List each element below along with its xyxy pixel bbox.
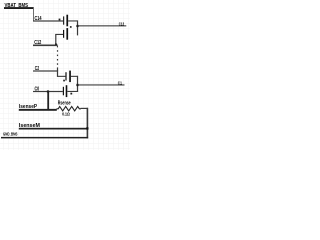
wire cap C14 right stub — [68, 20, 77, 21]
net label IsenseM — [19, 123, 41, 129]
net label C12 — [34, 40, 41, 46]
junction C13 node top — [76, 25, 78, 27]
capacitor C13 polarity mark — [70, 26, 72, 28]
net label C0 — [35, 87, 40, 93]
wire IsenseP row — [19, 109, 57, 111]
resistor Rsense value 0.1 ohm — [62, 112, 70, 118]
junction C12 elbow — [55, 44, 57, 46]
resistor Rsense — [57, 107, 81, 111]
wire GND row — [1, 137, 88, 139]
net label IsenseP — [19, 104, 38, 110]
wire right vertical (C1 node, bottom) — [77, 76, 78, 92]
svg-text:C13: C13 — [119, 21, 125, 27]
svg-text:0.1Ω: 0.1Ω — [62, 112, 70, 118]
wire C0 row — [33, 91, 63, 92]
junction C0 sense tap — [47, 90, 49, 92]
junction IsenseM right — [86, 127, 88, 129]
wire C2 row — [33, 70, 58, 71]
wire Rsense right stub — [81, 108, 89, 109]
net label C1 — [118, 80, 122, 86]
wire C2 elbow down to cap — [57, 70, 58, 77]
wire stub above C2 — [57, 67, 58, 71]
capacitor C0 — [63, 85, 67, 97]
wire cap C13 left stub — [55, 34, 63, 35]
wire VBAT_BMS vertical drop — [33, 8, 34, 21]
wire cap C0 right stub — [67, 91, 78, 92]
wire stub below C12 — [57, 46, 58, 48]
dotted continuation column — [57, 50, 58, 65]
capacitor C2 — [65, 71, 70, 83]
wire VBAT_BMS horizontal — [4, 7, 34, 9]
net label GND_BMS — [3, 131, 18, 137]
junction C1 node — [76, 84, 78, 86]
net label C14 — [35, 16, 43, 22]
wire C1 long horizontal — [78, 84, 125, 85]
wire cap C13 elbow down — [55, 34, 56, 45]
capacitor C14 — [63, 15, 68, 27]
wire right vertical (C13 node, top) — [77, 20, 78, 35]
net label C13 — [119, 21, 125, 27]
wire C13 long horizontal — [78, 25, 127, 26]
capacitor C13 — [63, 28, 68, 40]
svg-text:GND_BMS: GND_BMS — [3, 131, 18, 137]
wire C12 row — [33, 45, 58, 47]
wire cap C2 right stub — [71, 76, 78, 77]
wire cap C2 left stub — [58, 76, 66, 77]
capacitor C2 polarity mark — [63, 80, 65, 82]
net label C2 — [35, 66, 39, 72]
wire sense vertical C0 to IsenseP — [47, 91, 49, 110]
wire right vertical to GND — [87, 108, 89, 139]
svg-text:C1: C1 — [118, 80, 122, 86]
wire IsenseM row — [19, 128, 88, 130]
net label VBAT_BMS — [5, 3, 29, 9]
wire C14 row — [33, 20, 63, 21]
capacitor C0 polarity mark — [70, 93, 72, 95]
svg-text:Rsense: Rsense — [58, 100, 71, 106]
capacitor C14 polarity mark — [59, 19, 61, 21]
resistor Rsense designator — [58, 100, 71, 106]
